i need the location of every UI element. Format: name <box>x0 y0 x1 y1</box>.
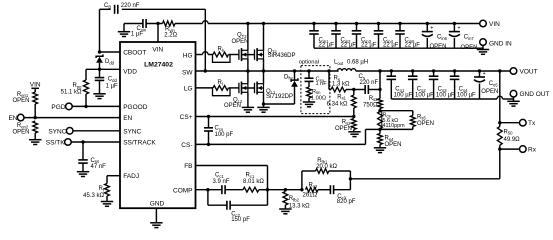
svg-text:261Ω: 261Ω <box>303 193 318 199</box>
node Rcs top <box>378 109 381 112</box>
svg-text:22 µF: 22 µF <box>405 43 421 49</box>
svg-text:HG: HG <box>183 52 193 59</box>
ground IC <box>150 223 162 228</box>
capacitor Cvin 1uF <box>143 19 146 28</box>
QL1 drain to SW <box>263 71 265 84</box>
svg-text:Rfb2: Rfb2 <box>289 196 300 202</box>
svg-text:optional: optional <box>299 60 319 66</box>
capacitor Cin6 OPEN <box>426 22 429 25</box>
node EN junction <box>34 116 37 119</box>
svg-text:COMP: COMP <box>173 187 193 194</box>
resistor Rc1 8.01k <box>243 187 259 192</box>
svg-text:49.9Ω: 49.9Ω <box>504 137 521 143</box>
svg-text:Rc1: Rc1 <box>246 173 255 179</box>
svg-text:Cdd: Cdd <box>108 77 118 83</box>
svg-text:1 µF: 1 µF <box>131 32 143 38</box>
transistor QL1 Si7192DP low-side <box>255 82 264 95</box>
svg-text:Cc1: Cc1 <box>215 173 224 179</box>
node CS+ junction <box>352 115 355 118</box>
resistor Rh gate resistor <box>213 52 228 57</box>
capacitor Cc3 820pF <box>318 189 330 191</box>
capacitor Co4 100uF <box>453 69 456 72</box>
svg-text:1 µF: 1 µF <box>106 83 118 89</box>
capacitor CB 220nF boot cap <box>100 8 111 10</box>
svg-text:OPEN: OPEN <box>385 142 402 148</box>
diode Dfw <box>293 69 296 72</box>
svg-text:OPEN: OPEN <box>12 98 29 104</box>
svg-text:100 µF: 100 µF <box>436 92 455 98</box>
wire PGOOD <box>72 105 120 107</box>
ground snubber <box>303 102 315 107</box>
ground Rs2 <box>348 132 360 137</box>
resistor Rs1 6.34k <box>353 90 355 96</box>
QT1 source to SW <box>263 59 265 71</box>
svg-text:PGOOD: PGOOD <box>123 104 148 111</box>
ground Rf <box>101 202 113 207</box>
wire input gnd rail <box>314 47 483 49</box>
terminal VIN <box>480 20 487 27</box>
svg-text:CB: CB <box>104 3 111 9</box>
svg-text:EN: EN <box>123 115 132 122</box>
svg-text:FB: FB <box>184 163 192 170</box>
wire CS- <box>196 143 366 145</box>
resistor Rs4 OPEN <box>379 129 381 133</box>
node QL1 source / Dfw anode <box>262 102 265 105</box>
capacitor Cin7 OPEN <box>453 22 456 25</box>
wire IC GND pin <box>155 208 157 223</box>
wire sense return to feedback <box>350 178 499 180</box>
terminal VOUT <box>510 68 517 75</box>
capacitor Csn 1nF <box>308 71 310 78</box>
svg-text:VDD: VDD <box>123 69 137 76</box>
wire Cvin to VIN pin node <box>146 23 162 25</box>
capacitor Ccs 100pF <box>207 115 210 118</box>
svg-text:45.3 kΩ: 45.3 kΩ <box>83 193 104 199</box>
QT2 source to SW <box>247 59 249 71</box>
resistor Rsn 1.00ohm <box>308 81 310 87</box>
svg-text:51.1 kΩ: 51.1 kΩ <box>61 89 82 95</box>
node VIN pin tap <box>156 22 159 25</box>
resistor Rvin 2.2ohm <box>163 21 175 26</box>
svg-text:OPEN: OPEN <box>481 89 498 95</box>
svg-text:Rsn: Rsn <box>312 89 321 95</box>
wire COMP <box>196 189 222 191</box>
node snubber tap <box>307 69 310 72</box>
wire FADJ <box>107 175 120 177</box>
svg-text:20.0 kΩ: 20.0 kΩ <box>316 164 337 170</box>
svg-text:VOUT: VOUT <box>520 69 538 76</box>
svg-text:CBOOT: CBOOT <box>123 49 146 56</box>
diode Ddd boot diode <box>96 54 103 58</box>
svg-text:22 µF: 22 µF <box>341 43 357 49</box>
wire CS+ <box>196 116 354 118</box>
QT1 drain to VIN rail <box>263 24 265 51</box>
svg-text:GND: GND <box>150 201 165 208</box>
ground Rs4 <box>374 148 386 153</box>
capacitor Cin1 22 µF <box>312 22 315 25</box>
capacitor Cdd 1uF <box>99 69 101 77</box>
node B Cs right junction <box>378 88 381 91</box>
capacitor Css 47nF <box>82 142 84 160</box>
svg-text:OPEN: OPEN <box>232 39 249 45</box>
ground QL1 <box>257 107 269 112</box>
svg-text:150 pF: 150 pF <box>231 217 250 223</box>
ground under Cdd <box>93 94 105 99</box>
svg-text:Rs3: Rs3 <box>369 96 378 102</box>
svg-text:47 nF: 47 nF <box>91 164 107 170</box>
svg-text:Si7192DP: Si7192DP <box>266 94 293 100</box>
transistor QT1 SiR436DP high-side <box>255 48 264 61</box>
terminal Tx <box>520 119 527 126</box>
node PGOOD/Rpg junction <box>84 105 87 108</box>
svg-text:SYNC: SYNC <box>48 128 66 135</box>
resistor Rcs 5.6k 4110ppm <box>378 112 383 129</box>
svg-text:13.3 kΩ: 13.3 kΩ <box>289 203 310 209</box>
resistor Rl gate resistor <box>213 86 228 91</box>
svg-text:Rs5: Rs5 <box>417 114 426 120</box>
QT2 drain to VIN rail <box>247 24 249 51</box>
svg-text:8.01 kΩ: 8.01 kΩ <box>243 179 264 185</box>
resistor Rf 45.3k <box>105 184 110 196</box>
svg-text:OPEN: OPEN <box>12 130 29 136</box>
svg-text:100 µF: 100 µF <box>457 92 476 98</box>
svg-text:EN: EN <box>8 115 17 122</box>
IC U1 LM27402 <box>120 42 196 208</box>
svg-text:+: + <box>483 71 486 77</box>
svg-text:2.2Ω: 2.2Ω <box>164 33 177 39</box>
wire VDD pin <box>86 68 120 70</box>
svg-text:SS/TK: SS/TK <box>46 140 65 147</box>
capacitor Co3 100uF <box>432 69 435 72</box>
wire feedforward right vertical <box>349 171 351 190</box>
svg-text:OPEN: OPEN <box>461 45 478 51</box>
terminal Rx <box>520 146 527 153</box>
capacitor Cc2 150pF parallel branch <box>207 190 209 206</box>
ground Css <box>77 172 89 177</box>
resistor Rc2 261ohm feedforward <box>306 187 318 192</box>
svg-text:OPEN: OPEN <box>430 44 447 50</box>
capacitor Co5 OPEN <box>478 69 481 72</box>
svg-text:1.00Ω: 1.00Ω <box>311 96 326 102</box>
wire LG <box>196 87 214 89</box>
wire Lout to VOUT rail <box>356 70 380 72</box>
svg-text:QT2: QT2 <box>237 33 247 39</box>
wire gate to QL2/QL1 <box>229 87 239 89</box>
wire node B up to VOUT rail <box>379 71 381 90</box>
svg-text:GND IN: GND IN <box>489 40 512 47</box>
capacitor Cs 220nF <box>354 89 365 91</box>
node VOUT sense tap <box>498 69 501 72</box>
svg-text:OPEN: OPEN <box>417 121 434 127</box>
optional snubber box <box>301 66 330 114</box>
node sense join <box>349 177 352 180</box>
wire VOUT rail <box>380 70 510 72</box>
svg-text:VIN: VIN <box>152 46 163 53</box>
svg-text:1.3 kΩ: 1.3 kΩ <box>332 82 350 88</box>
svg-text:Tx: Tx <box>528 120 536 127</box>
wire SS/TRACK <box>71 141 120 143</box>
node Rfb2 junction <box>284 188 287 191</box>
node Rs tap on SW <box>327 69 330 72</box>
resistor Ren2 OPEN <box>33 121 38 133</box>
ground GND IN <box>477 50 489 55</box>
svg-text:SiR436DP: SiR436DP <box>268 53 296 59</box>
svg-text:Ccs: Ccs <box>215 126 224 132</box>
svg-text:Rf: Rf <box>98 186 104 192</box>
svg-text:SS/TRACK: SS/TRACK <box>123 140 156 147</box>
svg-text:CS-: CS- <box>181 142 192 149</box>
svg-text:100 pF: 100 pF <box>215 132 234 138</box>
node COMP junction <box>206 188 209 191</box>
wire CBOOT node up to CB cap <box>99 9 101 52</box>
resistor Rs2 OPEN <box>351 119 356 130</box>
ground Rfb2 <box>279 209 291 214</box>
svg-text:Rh: Rh <box>218 47 225 53</box>
svg-text:220 nF: 220 nF <box>121 3 140 9</box>
svg-text:Cin6: Cin6 <box>437 35 448 41</box>
resistor Ren1 OPEN <box>33 92 38 104</box>
node Css junction <box>81 140 84 143</box>
wire CBOOT pin to node <box>100 51 121 53</box>
wire FB <box>196 165 268 167</box>
ground GND OUT <box>507 101 519 106</box>
capacitor Cc1 3.9nF <box>222 185 225 194</box>
node divider/feedforward left <box>300 188 303 191</box>
QL1 source to ground <box>263 92 265 107</box>
resistor Rpg 51.1k pull-up <box>85 69 87 80</box>
capacitor Cin2 22 µF <box>334 22 337 25</box>
terminal GND OUT <box>510 90 517 97</box>
terminal PGD <box>66 103 73 110</box>
node Rx <box>499 145 501 179</box>
wire output gnd rail with hop <box>391 98 497 100</box>
svg-text:820 pF: 820 pF <box>337 199 356 205</box>
wire VIN rail with hop over CB/SW vertical <box>175 23 203 25</box>
ground QL2 <box>242 107 254 112</box>
node VDD junction <box>98 68 101 71</box>
wire Cvin left <box>124 23 143 25</box>
capacitor Co2 100uF <box>411 69 414 72</box>
Rcs/Rs5 parallel box wires <box>381 111 383 130</box>
resistor Rs5 OPEN parallel <box>412 111 414 116</box>
wire HG with hop <box>196 54 203 56</box>
node Tx <box>498 121 501 124</box>
svg-text:3.9 nF: 3.9 nF <box>213 179 230 185</box>
capacitor Cin4 22 µF <box>377 22 380 25</box>
svg-text:100 µF: 100 µF <box>415 92 434 98</box>
node A Rs/Cs junction <box>352 88 355 91</box>
terminal EN <box>17 114 24 121</box>
svg-text:Rs4: Rs4 <box>385 136 394 142</box>
svg-text:FADJ: FADJ <box>123 173 139 180</box>
node CBOOT junction <box>98 50 101 53</box>
svg-text:0.68 µH: 0.68 µH <box>347 60 368 66</box>
capacitor Cin3 22 µF <box>355 22 358 25</box>
svg-text:Rc2: Rc2 <box>309 182 318 188</box>
wire SW rail <box>196 70 339 72</box>
svg-text:VIN: VIN <box>489 21 500 28</box>
svg-text:PGD: PGD <box>51 104 65 111</box>
svg-text:OPEN: OPEN <box>224 103 241 109</box>
svg-text:Rs2: Rs2 <box>342 120 351 126</box>
node FB junction <box>266 188 269 191</box>
svg-text:220 nF: 220 nF <box>360 80 379 86</box>
svg-text:Rl: Rl <box>218 80 223 86</box>
wire gate to QT2/QT1 <box>229 54 239 56</box>
svg-text:750Ω: 750Ω <box>363 102 378 108</box>
svg-text:Rx: Rx <box>528 147 537 154</box>
svg-text:+: + <box>457 25 460 31</box>
terminal SS/TK <box>65 139 72 146</box>
resistor Rfb1 20.0k top feedback <box>301 171 303 190</box>
svg-text:SYNC: SYNC <box>123 128 141 135</box>
QL2 drain to SW <box>247 71 249 84</box>
svg-text:4110ppm: 4110ppm <box>383 123 406 129</box>
svg-text:CS+: CS+ <box>180 114 193 121</box>
transistor QT2 OPEN high-side <box>239 48 248 61</box>
svg-text:Co5: Co5 <box>489 81 499 87</box>
svg-text:LM27402: LM27402 <box>144 61 173 68</box>
svg-text:Cin7: Cin7 <box>464 35 475 41</box>
node CS- junction <box>378 128 381 131</box>
svg-text:22 µF: 22 µF <box>383 43 399 49</box>
inductor Lout 0.68uH <box>337 69 355 71</box>
svg-text:+: + <box>430 25 433 31</box>
QL2 source to ground <box>247 92 249 107</box>
svg-text:Ddd: Ddd <box>105 59 115 65</box>
wire SYNC <box>73 130 120 132</box>
resistor Rfb2 13.3k <box>283 192 288 205</box>
svg-text:Lout: Lout <box>334 60 344 66</box>
svg-text:GND OUT: GND OUT <box>520 91 550 98</box>
wire FB node to divider <box>268 189 302 191</box>
ground Ren2 <box>29 140 41 145</box>
ground for Cvin <box>123 24 125 32</box>
terminal GND IN <box>480 39 487 46</box>
terminal SYNC <box>66 128 73 135</box>
svg-text:Rs1: Rs1 <box>337 94 346 100</box>
resistor R50 49.9ohm <box>497 127 502 146</box>
capacitor Co1 100uF <box>390 69 393 72</box>
svg-text:Dfw: Dfw <box>284 74 294 80</box>
wire EN <box>24 117 120 119</box>
capacitor Cin5 22 µF <box>398 22 401 25</box>
transistor QL2 OPEN low-side <box>239 82 248 95</box>
resistor Rs3 750ohm <box>379 90 381 99</box>
svg-text:LG: LG <box>184 85 193 92</box>
wire VIN pin drop <box>157 24 159 43</box>
resistor Rs 1.3k <box>329 89 331 91</box>
svg-text:6.34 kΩ: 6.34 kΩ <box>327 101 348 107</box>
svg-text:1 nF: 1 nF <box>316 81 328 87</box>
svg-text:SW: SW <box>182 69 193 76</box>
svg-text:22 µF: 22 µF <box>361 43 377 49</box>
svg-text:R50: R50 <box>504 129 514 135</box>
svg-text:100 µF: 100 µF <box>394 92 413 98</box>
wire CB to SW vertical <box>122 8 206 10</box>
svg-text:22 µF: 22 µF <box>319 43 335 49</box>
